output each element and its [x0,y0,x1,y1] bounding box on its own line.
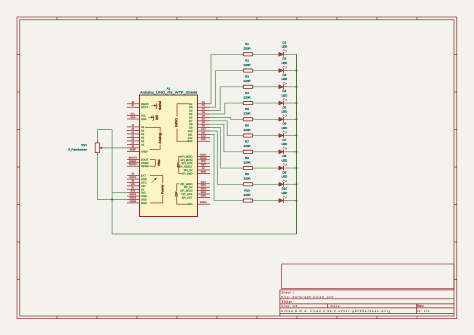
LED D10 [279,187,288,203]
wire: D6 cathode to rail [284,135,297,137]
svg-text:GND4: GND4 [129,200,136,203]
svg-text:AREF: AREF [130,148,137,151]
svg-text:Date:: Date: [331,304,342,308]
wire: D4 cathode to rail [284,102,297,104]
LED D8 [279,154,287,170]
wire: A1 pin D10 to resistor R9 [210,131,243,184]
wire: R1 to D1 [253,53,279,55]
svg-text:LED: LED [282,93,288,97]
svg-text:RESET: RESET [141,165,150,168]
LED D1 [279,40,287,56]
svg-text:220R: 220R [244,177,251,181]
svg-text:ISP: ISP [175,191,179,197]
A1 right pins: SPI group [177,153,211,175]
svg-text:Id: 1/1: Id: 1/1 [417,309,429,313]
svg-text:R7: R7 [245,140,249,144]
svg-text:Rev:: Rev: [417,304,424,308]
svg-text:R5: R5 [245,107,249,111]
svg-text:Arduino_UNO_R3_WTF_Shield: Arduino_UNO_R3_WTF_Shield [140,91,197,95]
wire: D10 cathode to rail [284,200,297,202]
junction at cathode rail row 6 [295,135,297,137]
potentiometer RV1 R_Potentiometer [68,140,103,156]
svg-text:R8: R8 [245,156,249,160]
junction at cathode rail row 3 [295,86,297,88]
A1 right pins: GPIO group (D2-D13) [175,101,210,143]
svg-text:R_Potentiometer: R_Potentiometer [68,147,87,151]
svg-text:R10: R10 [244,188,250,192]
svg-text:220R: 220R [244,144,251,148]
svg-text:220R: 220R [244,193,251,197]
resistor R1 220R [243,42,253,56]
wire: A1 pin D9 to resistor R8 [210,128,243,168]
svg-text:GPIO: GPIO [175,118,179,127]
svg-text:SDA: SDA [130,116,135,119]
junction at cathode rail row 10 [295,200,297,202]
A1 right pins: ISP group [175,181,211,206]
svg-text:KiCad E.D.A. kicad 6.99.0-131: KiCad E.D.A. kicad 6.99.0-1311+-g8798a7d… [281,309,391,313]
wire: R4 to D4 [253,102,279,104]
wire: R5 to D5 [253,118,279,120]
svg-text:R9: R9 [245,172,249,176]
svg-text:Vital: Vital [157,159,161,166]
wire: A1 pin D3 to resistor R2 [210,71,243,108]
wire: R8 to D8 [253,167,279,169]
wire: right vertical LED cathode rail [296,54,298,234]
wire: A1 pin D11 to resistor R10 [210,134,243,200]
wire: A1 pin D4 to resistor R3 [210,87,243,111]
svg-text:LED: LED [282,45,288,49]
resistor R7 220R [243,140,253,154]
svg-text:220R: 220R [244,95,251,99]
svg-text:GND: GND [201,170,207,173]
resistor R2 220R [243,58,253,72]
wire: A1 pin D5 to resistor R4 [210,103,243,114]
svg-text:LED: LED [282,175,288,179]
wire: pot bottom down and right to A1 GND pin [97,155,127,199]
junction at (112,199.5) [111,198,113,200]
LED D3 [279,73,287,89]
svg-text:LED: LED [282,77,288,81]
wire: R3 to D3 [253,86,279,88]
svg-text:220R: 220R [244,128,251,132]
wire: A1 pin D6 to resistor R5 [210,117,243,119]
wire: pot wiper to A1 analog pin [103,147,127,149]
svg-text:LED: LED [282,142,288,146]
IC A1 Arduino_UNO_R3_WTF_Shield body [140,86,198,216]
svg-text:Serial: Serial [158,101,162,110]
wire: R6 to D6 [253,135,279,137]
svg-text:R6: R6 [245,123,249,127]
svg-text:R4: R4 [245,91,249,95]
junction at cathode rail row 8 [295,167,297,169]
junction at cathode rail row 4 [295,102,297,104]
resistor R4 220R [243,91,253,105]
LED D7 [279,138,287,154]
svg-text:GND: GND [141,202,147,205]
svg-text:D13: D13 [188,140,193,143]
svg-text:220R: 220R [244,112,251,116]
LED D6 [279,122,287,138]
wire: R7 to D7 [253,151,279,153]
svg-text:AREF: AREF [141,150,148,153]
svg-text:ISP_RST: ISP_RST [182,196,193,199]
svg-text:SDA: SDA [141,118,147,121]
svg-text:220R: 220R [244,63,251,67]
wire: pot top loop to vertical bus [97,129,112,139]
svg-text:LED: LED [282,126,288,130]
wire: D8 cathode to rail [284,167,297,169]
LED D2 [279,57,287,73]
svg-text:Power: Power [161,184,165,194]
svg-text:R1: R1 [245,42,249,46]
svg-text:RESET: RESET [129,163,138,166]
wire: R9 to D9 [253,183,279,185]
svg-text:D1/TX: D1/TX [141,106,149,109]
junction at cathode rail row 2 [295,70,297,72]
svg-text:I2C: I2C [155,114,159,120]
wire: D9 cathode to rail [284,183,297,185]
A1 left pins: I2C group (SCL, SDA) [127,113,159,122]
svg-text:R3: R3 [245,75,249,79]
LED D9 [279,170,287,186]
resistor R9 220R [243,172,253,186]
svg-text:LED: LED [282,158,288,162]
LED D4 [279,89,287,105]
wire: D3 cathode to rail [284,86,297,88]
wire: D1 cathode to rail [284,53,297,55]
svg-text:LED: LED [282,191,288,195]
wire: R2 to D2 [253,70,279,72]
svg-text:SPI: SPI [177,162,181,167]
resistor R6 220R [243,123,253,137]
junction at cathode rail row 9 [295,183,297,185]
svg-text:LED: LED [282,61,288,65]
LED D5 [279,105,287,121]
junction at cathode rail row 7 [295,151,297,153]
junction at cathode rail row 5 [295,118,297,120]
wire: x=112 vertical to A1 power pin [112,192,127,194]
svg-text:LED: LED [282,110,288,114]
wire: D2 cathode to rail [284,70,297,72]
wire: A1 pin D8 to resistor R7 [210,124,243,152]
wire: A1 pin D7 to resistor R6 [210,121,243,136]
resistor R10 220R [243,188,253,202]
svg-text:GNDA: GNDA [200,201,207,204]
resistor R5 220R [243,107,253,121]
svg-text:File: barGraph.kicad_sch: File: barGraph.kicad_sch [281,295,333,299]
A1 left pins: Power group [127,173,165,205]
svg-text:Size: A4: Size: A4 [281,304,297,308]
svg-text:Analog: Analog [158,133,162,144]
svg-text:220R: 220R [244,47,251,51]
svg-text:220R: 220R [244,160,251,164]
wire: D5 cathode to rail [284,118,297,120]
wire: bottom ground rail [112,233,296,235]
svg-text:R2: R2 [245,58,249,62]
svg-text:220R: 220R [244,79,251,83]
svg-text:D13: D13 [201,138,206,141]
resistor R3 220R [243,75,253,89]
svg-text:ISP5: ISP5 [201,194,207,197]
wire: left vertical x=112 from loop down to bottom rail [111,129,113,234]
A1 left pins: Vital group (BOOT0, IOREF, RESET) [127,156,161,168]
A1 left pins: Serial group (D0/RX pin 30, D1/TX pin 31) [127,101,162,110]
wire: D7 cathode to rail [284,151,297,153]
svg-text:SPI_GND: SPI_GND [181,172,193,175]
svg-text:A5: A5 [141,143,145,146]
wire: A1 pin D2 to resistor R1 [210,54,243,104]
wire: R10 to D10 [253,200,279,202]
svg-text:GND: GND [187,203,193,206]
resistor R8 220R [243,156,253,170]
A1 left pins: Analog group (A0-A5, AREF) [127,124,162,153]
